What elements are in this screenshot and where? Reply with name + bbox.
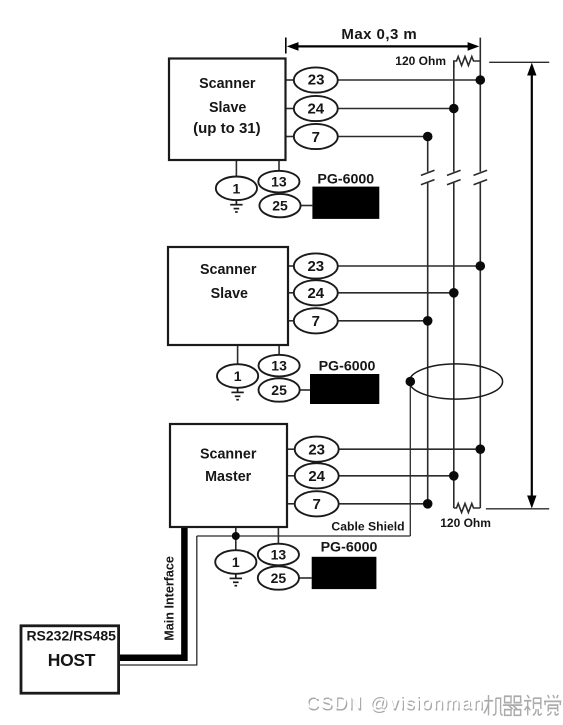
svg-text:23: 23 — [308, 71, 325, 88]
svg-text:(up to 31): (up to 31) — [193, 120, 261, 137]
svg-text:1: 1 — [233, 180, 241, 196]
svg-text:23: 23 — [308, 441, 325, 458]
svg-text:HOST: HOST — [48, 650, 96, 670]
svg-text:25: 25 — [272, 198, 288, 214]
svg-text:PG-6000: PG-6000 — [317, 172, 374, 188]
svg-text:Scanner: Scanner — [200, 262, 257, 278]
svg-text:1: 1 — [234, 368, 242, 384]
svg-text:13: 13 — [271, 174, 287, 190]
svg-text:Scanner: Scanner — [200, 447, 257, 463]
svg-text:Max 0,3 m: Max 0,3 m — [341, 26, 417, 43]
svg-text:7: 7 — [313, 496, 321, 513]
svg-text:PG-6000: PG-6000 — [319, 359, 376, 375]
svg-text:Master: Master — [205, 469, 252, 485]
svg-text:Main Interface: Main Interface — [163, 556, 177, 641]
svg-text:13: 13 — [271, 358, 287, 374]
svg-text:120 Ohm: 120 Ohm — [395, 54, 446, 68]
svg-text:1: 1 — [232, 554, 240, 570]
svg-text:7: 7 — [312, 313, 320, 330]
svg-text:24: 24 — [307, 101, 324, 118]
svg-text:PG-6000: PG-6000 — [321, 539, 378, 555]
svg-text:Cable Shield: Cable Shield — [331, 520, 404, 534]
svg-text:RS232/RS485: RS232/RS485 — [26, 628, 116, 644]
svg-text:120 Ohm: 120 Ohm — [440, 516, 491, 530]
svg-text:Slave: Slave — [211, 286, 248, 302]
svg-text:Scanner: Scanner — [199, 76, 256, 92]
svg-text:25: 25 — [271, 570, 287, 586]
svg-text:25: 25 — [271, 382, 287, 398]
svg-text:CSDN @visionman: CSDN @visionman — [306, 693, 485, 713]
svg-text:13: 13 — [271, 547, 287, 563]
svg-text:24: 24 — [308, 468, 325, 485]
svg-text:23: 23 — [307, 258, 324, 275]
svg-text:Slave: Slave — [209, 100, 246, 116]
svg-text:7: 7 — [312, 129, 320, 146]
svg-text:24: 24 — [307, 285, 324, 302]
